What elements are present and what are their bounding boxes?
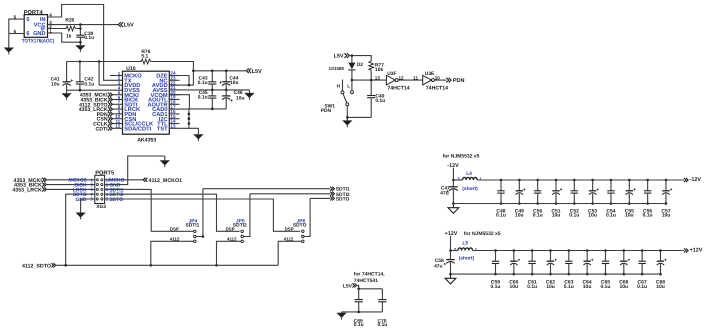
wire JP5 common to SDTI2 rail [244,194,250,237]
wire JP6 common to SDTO rail [304,198,310,236]
junction C47 bottom [452,202,455,205]
wire switch common to C40 bottom [347,116,371,118]
net flag -12V (right) [684,178,688,182]
svg-text:10u: 10u [625,213,634,219]
label L4 [466,171,472,177]
wire U10 pin19 stub [169,99,179,101]
wire U10 pin10 stub [113,118,123,120]
capacitor C67 (0.1u) [638,251,645,275]
junction AVDD riser on L5V rail [192,70,195,73]
svg-text:0.1u: 0.1u [490,284,500,290]
wire U10 pin23 stub [169,79,179,81]
value C52 0.1u [569,213,579,219]
PORT5 pin number 8 [106,182,109,187]
value C65 0.1u [600,284,610,290]
wire U10 pin14 stub [169,123,179,125]
junction I2C tie [188,117,191,120]
junction C54 top [610,179,613,182]
svg-text:AK4353: AK4353 [137,137,156,143]
wire U10 pin17 stub [169,108,179,110]
ground analog (right of C44) [244,90,254,100]
svg-text:10u: 10u [619,284,628,290]
junction C52 bottom [573,202,576,205]
svg-text:C46: C46 [234,90,243,96]
value C67 0.1u [637,284,647,290]
net flag chevron CSN [108,117,112,121]
value C44 10u [230,80,238,86]
U10 pin name DVSS [124,88,140,94]
svg-text:0.1u: 0.1u [637,284,647,290]
wire JP4 4112 position to rail [151,241,194,265]
svg-text:1k: 1k [66,34,72,40]
U10 pin name DVDD [124,83,140,89]
PORT5 pin name SDTO [109,197,123,203]
label C39 [84,31,93,37]
label C60 [509,279,518,285]
U10 pin number 17 [170,104,176,109]
U10 pin name CSN [124,117,136,123]
value C54 0.1u [606,213,616,219]
jumper JP5 contacts [241,230,244,243]
wire U10 pin21 stub [169,89,179,91]
value R76 5.1 [141,54,148,60]
PORT5 pin name BICK [74,183,87,189]
junction JP5 4112 on SDTO rail [215,264,218,267]
U10 pin number 13 [170,124,176,129]
net flag SDTI2 [330,192,334,196]
inverter U3F 74HCT14 [386,75,398,85]
wire L5V flag to C69 rail [357,285,383,288]
wire DVDD rail left segment [67,61,142,63]
wire DVDD to U10 pin3 [98,62,100,86]
capacitor C60 (10u) [510,251,520,275]
wire PORT4 pin5 to ground rail [9,19,24,44]
net label 4353_BICK [80,98,107,104]
capacitor C50 (0.1u) [534,180,541,204]
PORT4 pin number 6 [14,29,17,34]
svg-text:0.1u: 0.1u [564,284,574,290]
junction C48 bottom [500,202,503,205]
net label PDN [97,112,108,118]
svg-text:0.1u: 0.1u [198,95,208,101]
label PDN (switch) [321,108,332,114]
ground below C41 (DVSS) [62,90,72,100]
PORT5 pin name MCKO [109,178,124,184]
value C64 10u [583,284,592,290]
label TOTX176(AOC) [22,38,55,44]
junction C53 top [591,179,594,182]
PORT4 pin name VCC [34,23,46,29]
U10 pin number 19 [170,95,176,100]
svg-text:L5V: L5V [252,69,262,75]
U10 pin number 7 [118,100,121,105]
U10 pin name SCL/CCLK [124,121,154,128]
U10 pin name SDA/CDTI [124,125,151,132]
label JP5 [236,218,245,224]
net label L5V (U10 right) [252,69,262,75]
wire U10 pin7 stub [113,103,123,105]
label C63 [564,279,573,285]
svg-text:10u: 10u [230,80,238,86]
wire JP5 4112 position to rail [217,241,241,265]
label C53 [588,208,597,214]
junction C50 bottom [536,202,539,205]
junction C56 top [646,179,649,182]
junction C65 top [604,249,607,252]
PORT5 pin number 6 [106,187,109,192]
U10 pin number 24 [170,71,176,76]
wire PORT5 SDTO to JP6 DSP [105,199,301,231]
label C69 [354,319,363,325]
wire U10 pin22 stub [169,84,179,86]
L4 pin 1 [479,176,482,181]
PORT5 pin name MCKO2 [69,178,87,184]
capacitor C63 (0.1u) [565,251,572,275]
svg-text:10u: 10u [552,213,561,219]
wire 4353_BICK to PORT5 pin3 [46,184,94,186]
svg-text:74HCT541: 74HCT541 [354,278,378,284]
net label -12V (left) [447,163,459,169]
label DSP (JP6) [285,226,294,231]
U10 pin name LRCK [124,107,141,113]
label C48 [496,208,505,214]
PORT4 pin number 3 [49,20,52,25]
wire U10 pin6 stub [113,99,123,101]
capacitor C55 (10u) [626,180,636,204]
ground below C39 [75,42,85,52]
junction C64 bottom [586,273,589,276]
svg-text:47u: 47u [434,264,442,270]
net label SDTI1 [336,187,350,193]
capacitor C47 body [447,180,458,204]
capacitor C51 (10u) [552,180,562,204]
wire U10 pin8 stub [113,108,123,110]
U3F pin number 13 [375,75,381,80]
capacitor C49 (10u) [516,180,526,204]
label C51 [551,208,560,214]
junction C61 bottom [531,273,534,276]
PORT4 pin name GND [33,31,45,37]
ground below PORT5 left [76,212,86,219]
label JP6 [296,218,305,224]
wire +12V feed [450,236,452,251]
U10 pin name MCKO [124,74,142,80]
ground bank1 [448,204,459,214]
svg-text:0.1u: 0.1u [533,213,543,219]
svg-text:L5V: L5V [124,23,134,29]
wire U10 pin1 MCKO stub [110,75,123,77]
junction C69 top [357,288,360,291]
label C61 [528,279,537,285]
PORT5 pin number 5 [90,187,93,192]
junction JP4 4112 on SDTO rail [150,264,153,267]
label C42 [84,77,93,83]
svg-text:4112_SDTO: 4112_SDTO [22,263,51,269]
svg-text:4353_LRCK: 4353_LRCK [12,188,42,194]
junction C65 bottom [604,273,607,276]
wire PORT4 pin2 to R26 [48,28,67,30]
PORT5 pin pair row 4 [96,193,103,195]
capacitor C57 (10u) [662,180,672,204]
label R77 [375,62,384,68]
inverter U3E 74HCT14 [423,75,435,85]
L5 pin 2 [454,247,457,252]
svg-text:XG3: XG3 [96,204,106,210]
U10 pin number 18 [170,100,176,105]
U10 pin name CAD0 [152,107,168,113]
wire SDTI1 rail to flag [203,188,330,190]
U10 pin name AVDD [152,83,168,89]
svg-text:0.1u: 0.1u [354,322,364,328]
svg-text:0.1u: 0.1u [527,284,537,290]
svg-text:4112: 4112 [170,237,180,242]
svg-text:SDTO: SDTO [109,197,123,203]
label SDTO (JP6) [293,222,307,228]
net label +12V (right) [690,248,703,254]
PORT4 pin name 6 [26,31,29,37]
label 4112 (JP4) [170,237,180,242]
label C49 [515,208,524,214]
wire tie to ground [189,128,199,131]
note for 74HCT14, [354,271,385,277]
U10 pin number 11 [115,119,120,124]
label C44 [229,75,238,81]
PORT5 pin number 4 [106,192,109,197]
svg-text:10u: 10u [515,213,524,219]
junction R77 bottom node [370,79,373,82]
capacitor C64 (10u) [583,251,593,275]
ground arrow right of PORT5 [160,156,170,167]
connector PORT4 box (TOTX176) [24,15,47,38]
junction C48 top [500,179,503,182]
svg-text:CDTI: CDTI [95,126,108,132]
svg-text:L: L [347,84,350,89]
value C47 47u [440,190,448,196]
wire 4353_MCKI to PORT5 pin1 [46,179,94,181]
ground below SW1 [342,117,352,127]
capacitor C53 (10u) [589,180,599,204]
net label 4112_SDTO [22,263,51,269]
label C46 [234,90,243,96]
value C48 0.1u [496,213,506,219]
label C50 [533,208,542,214]
svg-text:0.1u: 0.1u [84,35,94,41]
svg-text:4112: 4112 [284,237,294,242]
value C46 10u [236,95,244,101]
capacitor C62 (10u) [547,251,557,275]
svg-text:SDTI1: SDTI1 [336,187,350,193]
switch SW1 PDN [341,80,354,118]
svg-text:L4: L4 [466,171,472,177]
svg-text:L5V: L5V [343,283,353,289]
label 74HCT14 (U3E) [426,85,448,91]
U3E pin number 10 [435,75,441,80]
capacitor C46 body [222,90,233,109]
net flag 4353_BICK (PORT5) [42,183,46,187]
label R76 [141,49,150,55]
U10 pin number 8 [118,105,121,110]
junction C52 top [573,179,576,182]
svg-text:0.1u: 0.1u [569,213,579,219]
wire L5V rail (analog) [193,70,246,72]
resistor R26 body [66,26,76,31]
junction C50 top [536,179,539,182]
capacitor C66 (10u) [620,251,630,275]
wire U10 pin18 stub [169,103,179,105]
svg-text:SDTO: SDTO [293,222,307,228]
wire bank2 ground rail [451,273,661,275]
svg-text:-12V: -12V [690,177,702,183]
label 74HCT14 (U3F) [387,85,409,91]
svg-text:0.1u: 0.1u [643,213,653,219]
wire U10 pin16 stub [169,113,179,115]
wire JP6 4112 position to rail [278,241,301,265]
svg-text:for 74HCT14,: for 74HCT14, [354,271,385,277]
PORT4 pin number 2 [49,24,52,29]
capacitor C68 (10u) [657,251,667,275]
U10 pin number 6 [118,95,121,100]
capacitor C45 body [208,90,216,109]
note 74HCT541 [354,278,378,284]
L4 pin 2 [457,176,460,181]
junction C58 bottom [449,273,452,276]
label C57 [661,208,670,214]
U10 pin number 23 [170,76,176,81]
net label 4112_SDTO [79,102,107,108]
svg-text:4112: 4112 [227,237,237,242]
value C50 0.1u [533,213,543,219]
label C54 [606,208,615,214]
value C40 0.1u [375,98,385,104]
svg-text:(short): (short) [459,255,475,261]
svg-text:10u: 10u [236,95,244,101]
U10 pin name BICK [124,98,139,104]
value C53 10u [588,213,597,219]
net flag chevron 4353_MCKI [108,93,112,97]
junction C67 top [641,249,644,252]
inductor L4 body [463,177,478,180]
net label -12V (right) [690,177,702,183]
PORT4 pin number 5 [14,15,17,20]
label C56 [643,208,652,214]
wire U10 pin15 stub [169,118,179,120]
svg-text:PORT4: PORT4 [24,10,44,16]
label C58 [435,258,444,264]
svg-text:5.1: 5.1 [141,54,148,60]
label R26 [65,18,74,24]
junction R26/C39 vertical [79,27,82,30]
svg-text:0.1u: 0.1u [606,213,616,219]
PORT5 pin name SDTI2 [109,192,123,198]
ground below U10 control pins [193,131,203,141]
U10 pin number 14 [170,119,176,124]
value 1S1588 [329,66,345,71]
U10 pin name AVSS [153,88,168,94]
PORT5 pin number 2 [106,197,109,202]
wire C69/C70 ground rail [342,311,383,313]
label PORT4 [24,10,44,16]
value C63 0.1u [564,284,574,290]
value C59 0.1u [490,284,500,290]
PORT4 pin name IN [40,17,46,23]
svg-text:SDA/CDTI: SDA/CDTI [124,125,151,132]
U10 pin number 22 [170,80,176,85]
wire PORT5 pin7 SDTO down to 4112_SDTO rail [66,194,95,265]
inductor L5 body [458,248,473,251]
junction C60 top [513,249,516,252]
svg-text:L5V: L5V [334,54,344,60]
value C66 10u [619,284,628,290]
capacitor C65 (0.1u) [602,251,609,275]
net label 4353_MCKI (PORT5) [14,178,43,184]
junction PORT5 SDTO drop [64,264,67,267]
wire SDTO rail to flag [310,197,330,199]
label C45 [199,90,208,96]
U10 pin number 3 [118,81,121,86]
junction DZE on AVDD row [188,84,191,87]
junction C43 top [211,70,214,73]
wire AVSS to analog ground rail [169,89,249,91]
net flag 4112_SDTO [51,263,55,267]
U10 pin name TST [157,126,168,132]
svg-text:0.1u: 0.1u [378,322,388,328]
label C64 [583,279,592,285]
junction C59 top [494,249,497,252]
wire PORT5 GND jog to ground arrow [105,156,165,185]
capacitor C44 body [220,71,231,90]
wire JP4 common to SDTI1 rail [196,189,203,237]
svg-text:74HCT14: 74HCT14 [426,85,448,91]
label 4112 (JP6) [284,237,294,242]
wire L5V to R77 corner [349,56,371,62]
value C56 0.1u [643,213,653,219]
label PORT5 [95,170,114,176]
net flag 4353_LRCK (PORT5) [42,187,46,191]
wire to L4 [453,179,462,181]
junction C39 bottom [79,41,82,44]
wire L5V to PORT4 pin3 [48,24,119,26]
label C70 [378,319,387,325]
capacitor C58 body [444,251,455,275]
PORT5 pin number 3 [90,182,93,187]
svg-text:U3E: U3E [425,71,435,77]
U3F pin number 12 [399,75,405,80]
svg-text:47u: 47u [440,190,448,196]
U10 pin number 12 [115,124,121,129]
U10 pin number 21 [170,85,176,90]
note (short) bank2 [459,255,475,261]
PORT5 pin number 1 [90,178,93,183]
wire U10 pin13 stub [169,127,179,129]
U10 pin name CAD1 [152,112,168,118]
junction C63 top [568,249,571,252]
U10 pin number 4 [118,85,121,90]
svg-text:13: 13 [375,75,381,80]
resistor R76 body [141,59,151,64]
U10 pin number 15 [170,114,176,119]
svg-text:74HCT14: 74HCT14 [387,85,409,91]
label L5 [462,241,468,247]
ground below PORT4 [4,45,14,55]
label C41 [51,77,60,83]
wire PORT5 pin9 GND to ground [81,199,95,212]
wire U10 pin9 stub [113,113,123,115]
net label SDTI2 [336,192,350,198]
svg-text:PDN: PDN [453,78,465,84]
wire PORT5 SDTI2 to JP5 DSP [105,194,240,231]
svg-text:(short): (short) [462,186,478,192]
wire R77 to node [370,70,372,80]
